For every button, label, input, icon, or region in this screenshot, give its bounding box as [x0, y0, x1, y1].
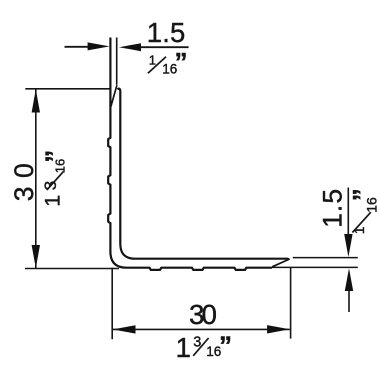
- extension line bottom-dim left (vertical below corner): [111, 268, 113, 340]
- extension line bottom-left (for 30 height dimension, lower): [25, 268, 119, 270]
- profile outer line (vertical leg left face with serration notches, outer corner, bottom face): [108, 38, 272, 270]
- label 1 3/16" (bottom): [176, 331, 233, 364]
- profile taper diagonal top (nested leg chisel tip): [111, 85, 117, 106]
- profile taper diagonal right (bottom leg chisel tip): [272, 259, 289, 266]
- arrow bottom-left (pointing left): [113, 325, 136, 333]
- arrow left-top (pointing up): [32, 89, 40, 112]
- extension line top-left (for 30 height dimension, upper): [25, 88, 110, 90]
- extension line bottom-dim right (vertical): [290, 268, 292, 339]
- dimension shaft right-upper (1.5 thickness of bottom leg): [347, 188, 349, 237]
- svg-text:”: ”: [219, 331, 232, 361]
- label 1/16" (right fraction, rotated): [347, 188, 379, 234]
- profile thin inner line upper (nested leg): [116, 38, 118, 85]
- svg-text:”: ”: [347, 188, 377, 201]
- svg-text:1: 1: [149, 53, 156, 68]
- arrow right-upper (pointing down): [344, 234, 352, 257]
- arrow right-lower (pointing up): [345, 268, 353, 291]
- arrow top-left (pointing right at leg): [88, 42, 110, 50]
- dimension line bottom (30 horizontal): [113, 328, 290, 330]
- svg-text:30: 30: [189, 299, 217, 330]
- svg-text:1: 1: [40, 195, 64, 207]
- profile thin continuation bottom right: [272, 266, 358, 268]
- label 1/16" (top fraction): [148, 47, 188, 77]
- dimension line left (30 vertical): [35, 89, 37, 268]
- dimension shaft top-left (1.5 thickness): [65, 46, 89, 48]
- svg-text:”: ”: [175, 47, 188, 77]
- profile thin continuation top right: [293, 257, 358, 259]
- dimension shaft right-lower: [348, 290, 350, 312]
- svg-text:1.5: 1.5: [147, 17, 186, 48]
- svg-text:”: ”: [40, 150, 70, 163]
- svg-text:1: 1: [351, 226, 367, 234]
- profile thick inner line (rounded top hook, inner corner, top of bottom leg): [117, 89, 288, 260]
- svg-text:1.5: 1.5: [317, 189, 347, 228]
- arrow top-right (pointing left at leg): [119, 43, 141, 51]
- label 1 3/16" (left, rotated): [40, 150, 70, 207]
- svg-text:30: 30: [9, 155, 39, 201]
- dimension leader top-right under 1.5 text: [141, 46, 189, 48]
- arrow bottom-right (pointing right): [267, 325, 290, 333]
- arrow left-bottom (pointing down): [32, 245, 40, 268]
- svg-text:1: 1: [176, 332, 191, 363]
